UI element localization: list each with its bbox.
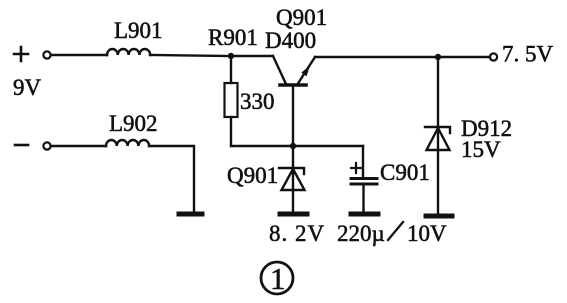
svg-text:D400: D400 (265, 28, 316, 53)
svg-text:7. 5V: 7. 5V (502, 42, 554, 67)
anode triangle (282, 169, 305, 190)
svg-text:9V: 9V (13, 75, 42, 100)
svg-text:L901: L901 (114, 18, 163, 43)
svg-text:L902: L902 (109, 111, 158, 136)
figure number circled 1 (261, 261, 293, 296)
ground (C901) (351, 212, 378, 217)
wire: node B to C901 (293, 145, 363, 147)
wire: node C down to D912 (437, 57, 439, 128)
input terminal top (43, 51, 50, 58)
wire: top terminal to L901 (51, 54, 107, 56)
svg-text:Q901: Q901 (276, 5, 327, 30)
svg-text:Q901: Q901 (227, 163, 278, 188)
node A junction dot (228, 53, 234, 59)
slash in 220u/10V (388, 222, 403, 240)
wire: down to C901 (362, 146, 364, 177)
wire: emitter to output (315, 56, 490, 58)
node C junction dot (435, 54, 441, 60)
svg-text:8. 2V: 8. 2V (269, 221, 325, 246)
resistor R901 (225, 83, 238, 117)
svg-text:15V: 15V (461, 137, 501, 162)
wire: node A down to R901 (230, 56, 232, 83)
inductor L902 (106, 140, 149, 146)
capacitor C901 polarity plus (351, 163, 361, 173)
base lead down (292, 86, 294, 146)
cathode bar with bent end (425, 127, 450, 133)
svg-text:10V: 10V (407, 221, 447, 246)
ground (zener Q901) (280, 212, 307, 217)
output terminal (490, 53, 497, 60)
svg-text:1: 1 (270, 261, 286, 296)
base bar (280, 83, 306, 87)
capacitor C901 (351, 179, 377, 185)
ground (D912) (426, 214, 452, 219)
wire: L902 right then down (149, 146, 194, 212)
wire: L901 to node A (150, 55, 231, 56)
zener diode Q901 8.2V (279, 146, 305, 212)
lead through (437, 128, 439, 150)
collector lead (273, 56, 286, 84)
plus terminal symbol (14, 47, 28, 61)
node B junction dot (290, 143, 296, 149)
anode triangle (427, 128, 450, 150)
zener diode D912 15V (425, 127, 450, 213)
inductor L901 (107, 49, 150, 55)
wire: C901 to ground (362, 184, 364, 212)
svg-text:220µ: 220µ (337, 221, 385, 246)
wire: node A to transistor collector (231, 55, 273, 57)
emitter lead with arrow (297, 57, 315, 85)
wire: bottom terminal to L902 (51, 145, 106, 147)
ground (L902) (179, 212, 202, 217)
transistor Q1 D400 (273, 56, 315, 146)
wire: R901 bottom down (230, 117, 232, 146)
svg-text:330: 330 (240, 89, 275, 114)
cathode bar with bent end (279, 168, 304, 174)
lead through (292, 146, 294, 190)
wire: R901 to node B horizontal (231, 145, 293, 147)
svg-text:C901: C901 (380, 160, 430, 185)
input terminal bottom (43, 142, 50, 149)
minus terminal symbol (15, 144, 28, 147)
svg-text:R901: R901 (208, 25, 258, 50)
